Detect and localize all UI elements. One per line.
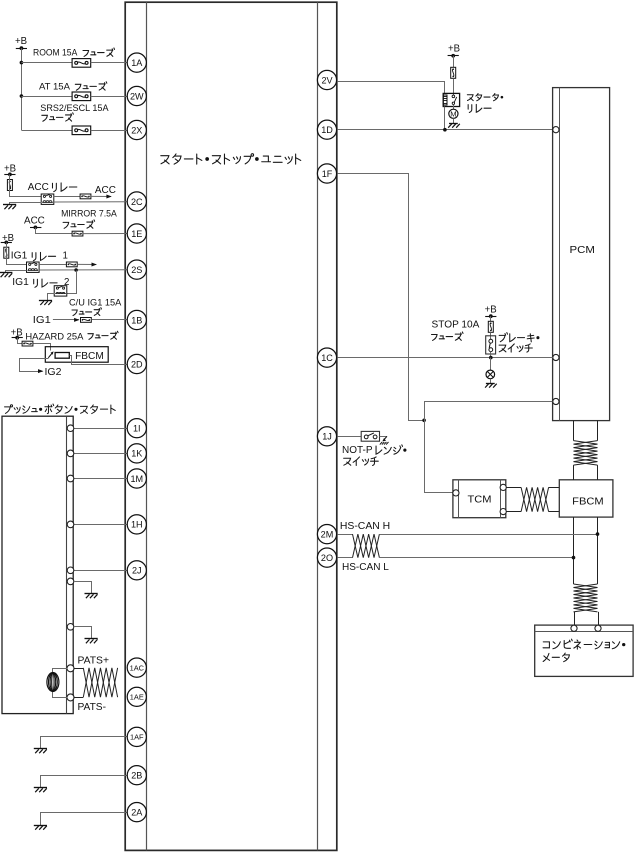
svg-text:1F: 1F <box>322 169 333 179</box>
twisted pair PCM-FBCM <box>574 441 598 466</box>
svg-text:1M: 1M <box>130 474 143 484</box>
body ground (NOT-P switch) <box>384 436 387 439</box>
push-button start box <box>2 416 73 713</box>
junction node 2W row <box>20 94 24 98</box>
wire lamp to ground <box>490 379 492 383</box>
wire fuse to pin 2X <box>91 130 128 132</box>
svg-text:C/U IG1 15A: C/U IG1 15A <box>69 298 122 309</box>
module FBCM box (right) <box>559 480 613 517</box>
module FBCM (front body control) <box>45 347 108 363</box>
svg-text:MIRROR 7.5A: MIRROR 7.5A <box>61 209 117 220</box>
junction node 1A row <box>20 61 24 65</box>
brake switch <box>486 336 496 354</box>
pin 2B (start-stop unit) <box>127 766 146 785</box>
start-stop unit body <box>125 2 337 850</box>
svg-text:FBCM: FBCM <box>75 351 104 362</box>
CAN bus FBCM down left <box>573 517 575 584</box>
relay IG1 relay 1 <box>27 262 40 272</box>
pin PATS- <box>67 694 74 701</box>
pin (push-button) 1I row <box>67 425 74 432</box>
pin 2W (start-stop unit) <box>127 86 146 105</box>
pin 1M (start-stop unit) <box>127 469 146 488</box>
pin PCM 1D <box>553 127 559 133</box>
fuse AT 15A <box>72 92 91 101</box>
wire TCM to lattice upper <box>506 487 521 489</box>
wire TCM to lattice lower <box>506 511 521 513</box>
wire lattice to FBCM upper <box>549 487 560 489</box>
wire FBCM coil to pin 2D <box>70 356 128 365</box>
PCM connector line <box>559 88 561 421</box>
wire to fuse AT <box>21 96 72 98</box>
fuse MIRROR 7.5A <box>72 231 83 236</box>
relay contact arrow inside FBCM <box>48 353 52 358</box>
relay (starter) with coil and contact <box>443 93 459 106</box>
fuse C/U IG1 15A <box>81 318 92 323</box>
relay IG1 relay 2 <box>54 286 67 296</box>
wire HS-CAN L to bus <box>379 557 573 559</box>
svg-text:2V: 2V <box>321 75 333 85</box>
ground (stop lamp) <box>486 383 495 385</box>
svg-text:FBCM: FBCM <box>572 496 604 507</box>
svg-text:1AC: 1AC <box>130 663 145 672</box>
svg-text:1AE: 1AE <box>130 693 144 702</box>
wire fuse to pin 2W <box>91 96 128 98</box>
svg-text:1AF: 1AF <box>130 733 144 742</box>
svg-text:IG1: IG1 <box>11 251 28 262</box>
unit left connector strip line <box>146 2 148 850</box>
ground (2B) <box>34 787 47 789</box>
pin PCM TCM-wire <box>553 398 559 404</box>
wire relay2 to ground <box>48 294 55 301</box>
fuse (ACC output) <box>80 194 91 199</box>
svg-text:HAZARD 25A: HAZARD 25A <box>25 332 84 343</box>
wire pin 1C to PCM <box>337 357 553 359</box>
svg-text:1H: 1H <box>131 520 143 530</box>
pin 2D (start-stop unit) <box>127 354 146 373</box>
pin 1D (start-stop unit right) <box>317 120 336 139</box>
pin 2O (start-stop unit right) <box>317 548 336 567</box>
wire relay1 coil to ground <box>6 271 27 273</box>
wire pin 1AF to ground <box>41 737 128 749</box>
fuse (IG1 relay feed) <box>4 247 9 258</box>
fuse (ACC relay feed) <box>7 180 12 191</box>
svg-text:AT 15A: AT 15A <box>39 81 71 92</box>
wire fuse to pin 1B <box>91 319 127 321</box>
wire relay1 to fuse <box>39 264 66 266</box>
svg-text:M: M <box>450 110 456 119</box>
wire switch pin to 2J <box>74 570 127 572</box>
wire pin 2V to starter relay coil <box>337 82 445 94</box>
pin TCM left <box>453 490 459 496</box>
junction node relay2 feed <box>74 268 78 272</box>
starter motor M <box>449 109 458 118</box>
pin meter CAN H <box>571 625 577 631</box>
junction node CAN H <box>596 532 600 536</box>
wire 2O to lattice <box>337 557 353 559</box>
wire PCM to TCM <box>425 402 553 493</box>
wire junction to stop lamp <box>490 358 492 371</box>
svg-text:2B: 2B <box>131 771 142 781</box>
wire +B to hazard fuse <box>18 338 23 344</box>
wire fuse to ACC arrow <box>91 195 111 197</box>
svg-text:+B: +B <box>485 304 497 315</box>
pin 1A (start-stop unit) <box>127 53 146 72</box>
wire +B vertical bus <box>21 48 23 130</box>
svg-text:HS-CAN L: HS-CAN L <box>342 562 389 573</box>
wire +B to IG1 relay1 <box>7 243 27 265</box>
svg-text:+B: +B <box>448 43 460 54</box>
svg-text:2W: 2W <box>130 91 144 101</box>
CAN bus PCM to lattice left <box>573 421 575 441</box>
pin 2S (start-stop unit) <box>127 260 146 279</box>
pin 2C (start-stop unit) <box>127 192 146 211</box>
wire PATS+ to antenna coil <box>53 669 68 673</box>
svg-text:2X: 2X <box>131 125 142 135</box>
fuse (starter relay) <box>451 67 456 78</box>
fuse ROOM 15A <box>72 59 91 68</box>
wire relay coil to ground <box>10 203 42 205</box>
svg-text:1B: 1B <box>131 315 142 325</box>
pin 1H (start-stop unit) <box>127 515 146 534</box>
svg-text:2O: 2O <box>321 553 333 563</box>
combination meter box <box>535 625 633 676</box>
wire HS-CAN H to bus <box>379 534 597 536</box>
wire switch pin to 1H <box>74 524 127 526</box>
svg-text:1J: 1J <box>322 432 332 442</box>
label combination meter <box>543 639 625 649</box>
label starter relay <box>467 94 503 101</box>
pin 1AE (start-stop unit) <box>127 687 146 706</box>
pin 2X (start-stop unit) <box>127 120 146 139</box>
svg-text:PATS-: PATS- <box>78 702 107 713</box>
CAN bus lattice to FBCM left <box>573 465 575 480</box>
ground (1AF) <box>34 748 47 750</box>
wire fuse to pin 1A <box>91 62 128 64</box>
pin 1F (start-stop unit right) <box>317 164 336 183</box>
wire pin 1F to junction <box>337 174 425 421</box>
module TCM box <box>453 480 506 518</box>
svg-text:STOP 10A: STOP 10A <box>432 319 480 330</box>
wire +B to stop fuse <box>490 316 492 321</box>
wire 2M to lattice <box>337 534 353 536</box>
svg-text:ACC: ACC <box>28 182 49 193</box>
pin TCM right upper <box>500 484 506 490</box>
wire relay to starter motor <box>453 105 455 110</box>
wire pin 2B to ground <box>41 776 128 788</box>
junction node 1F/PCM <box>422 419 426 423</box>
wire to fuse ROOM <box>21 62 72 64</box>
pin 1J (start-stop unit right) <box>317 427 336 446</box>
svg-text:2J: 2J <box>132 566 142 576</box>
pin (push-button) 1M row <box>67 475 74 482</box>
pin 1K (start-stop unit) <box>127 444 146 463</box>
fuse HAZARD 25A <box>22 341 33 346</box>
wire lattice to FBCM lower <box>549 511 560 513</box>
wire switch pin to 1K <box>74 453 127 455</box>
svg-text:1I: 1I <box>133 424 141 434</box>
wire IG2 branch <box>20 359 49 372</box>
wire pin 1D to PCM <box>337 129 553 131</box>
ground (IG1 relay1) <box>0 272 12 274</box>
pin 1AF (start-stop unit) <box>127 727 146 746</box>
wire PATS- to lattice <box>74 697 83 699</box>
relay coil inside FBCM <box>55 353 69 359</box>
pin PCM 1C <box>553 354 559 360</box>
label push-button start <box>5 404 116 414</box>
CAN bus lattice to FBCM right <box>597 465 599 480</box>
svg-text:2S: 2S <box>131 265 142 275</box>
wire pin 1J to switch <box>337 436 362 438</box>
wire fuse to pin 1E <box>83 233 127 235</box>
pin 1C (start-stop unit right) <box>317 348 336 367</box>
svg-text:PCM: PCM <box>570 245 595 256</box>
wire switch pin to 1I <box>74 428 127 430</box>
fuse (IG1 relay output) <box>66 262 77 267</box>
svg-text:PATS+: PATS+ <box>78 655 110 666</box>
junction node CAN L <box>572 556 576 560</box>
svg-text:1E: 1E <box>131 229 142 239</box>
svg-text:ROOM 15A: ROOM 15A <box>33 47 78 58</box>
PATS antenna coil <box>47 673 59 692</box>
CAN bus to meter right <box>598 612 600 625</box>
label brake switch <box>499 333 539 342</box>
wire ACC relay coil to pin 2C <box>54 201 127 203</box>
push-button start connector line <box>66 416 68 713</box>
ground (push-button 1) <box>85 593 98 595</box>
stop lamp <box>486 370 495 379</box>
svg-text:IG1: IG1 <box>12 277 29 288</box>
CAN bus PCM to lattice right <box>597 421 599 441</box>
svg-text:2M: 2M <box>321 529 334 539</box>
svg-text:ACC: ACC <box>24 215 45 226</box>
wire antenna coil to PATS- <box>53 692 68 698</box>
twisted pair TCM-FBCM <box>521 487 549 511</box>
wire motor to ground <box>453 118 455 123</box>
wire to ground 1 <box>75 582 92 594</box>
pin 1E (start-stop unit) <box>127 224 146 243</box>
wire pin 2A to ground <box>41 813 128 826</box>
fuse SRS2/ESCL 15A <box>72 126 91 135</box>
fuse STOP 10A <box>488 321 493 332</box>
relay ACC <box>41 194 54 204</box>
wire fuse to arrow <box>77 263 96 265</box>
pin 1B (start-stop unit) <box>127 310 146 329</box>
svg-text:1: 1 <box>63 251 68 262</box>
wire junction down to relay2 <box>67 271 77 294</box>
svg-text:IG1: IG1 <box>33 315 51 326</box>
wire brake switch to 1C wire <box>490 352 492 358</box>
pin (push-button) 1K row <box>67 450 74 457</box>
ground (IG1 relay2) <box>39 300 52 302</box>
pin 2A (start-stop unit) <box>127 803 146 822</box>
pin 2V (start-stop unit right) <box>317 70 336 89</box>
wire switch to body ground arrow <box>380 436 387 438</box>
svg-text:1K: 1K <box>131 449 142 459</box>
ground (push-button 2) <box>85 638 98 640</box>
pin (push-button) ground 1 <box>67 578 74 585</box>
module PCM box <box>553 88 610 421</box>
twisted pair HS-CAN <box>353 534 380 558</box>
wire starter relay coil to 1D wire <box>444 107 446 130</box>
wire switch pin to 1M <box>74 478 127 480</box>
svg-text:NOT-P: NOT-P <box>342 445 373 456</box>
wire to fuse SRS2 <box>21 130 72 132</box>
twisted pair FBCM-meter <box>574 584 598 612</box>
pin 1I (start-stop unit) <box>127 419 146 438</box>
CAN bus to meter left <box>574 612 576 625</box>
svg-text:TCM: TCM <box>468 495 492 506</box>
pin 2M (start-stop unit right) <box>317 525 336 544</box>
junction node on 1D wire <box>443 128 447 132</box>
unit right connector strip line <box>317 2 319 850</box>
NOT-P range switch <box>361 431 379 441</box>
svg-text:SRS2/ESCL 15A: SRS2/ESCL 15A <box>40 103 109 114</box>
pin 1AC (start-stop unit) <box>127 658 146 677</box>
wire IG1 to fuse <box>53 319 79 321</box>
wire relay to ACC fuse <box>54 196 80 198</box>
pin (push-button) 1H row <box>67 521 74 528</box>
label start-stop unit <box>161 154 301 164</box>
pin (push-button) 2J row <box>67 567 74 574</box>
wire fuse into FBCM <box>34 344 51 351</box>
wire ACC tap to fuse <box>36 228 73 234</box>
svg-text:+B: +B <box>15 36 27 47</box>
junction node brake/1C <box>489 356 493 360</box>
ground (starter motor) <box>449 123 458 125</box>
ground (ACC relay) <box>3 204 16 206</box>
svg-text:1A: 1A <box>131 58 143 68</box>
pin PATS+ <box>67 665 74 672</box>
ground (2A) <box>34 825 47 827</box>
pin TCM right lower <box>500 509 506 515</box>
pin (push-button) ground 2 <box>67 624 74 631</box>
svg-text:1C: 1C <box>321 353 333 363</box>
svg-text:2A: 2A <box>131 807 143 817</box>
wire +B to ACC relay <box>10 175 42 197</box>
wire to ground 2 <box>75 627 92 639</box>
wire fuse to brake switch <box>490 332 492 339</box>
wire relay1 coil to pin 2S <box>39 269 127 271</box>
twisted pair PATS <box>83 668 117 697</box>
pin meter CAN L <box>595 625 601 631</box>
wire PATS+ to lattice <box>74 668 83 670</box>
svg-text:2D: 2D <box>131 359 143 369</box>
CAN bus FBCM down right <box>597 517 599 584</box>
svg-text:IG2: IG2 <box>45 367 62 378</box>
wire fuse to relay switch <box>453 78 455 95</box>
wire +B to fuse <box>453 56 455 67</box>
svg-text:1D: 1D <box>321 125 333 135</box>
svg-text:2C: 2C <box>131 197 143 207</box>
svg-text:ACC: ACC <box>95 185 116 196</box>
svg-text:HS-CAN H: HS-CAN H <box>340 521 390 532</box>
pin 2J (start-stop unit) <box>127 561 146 580</box>
